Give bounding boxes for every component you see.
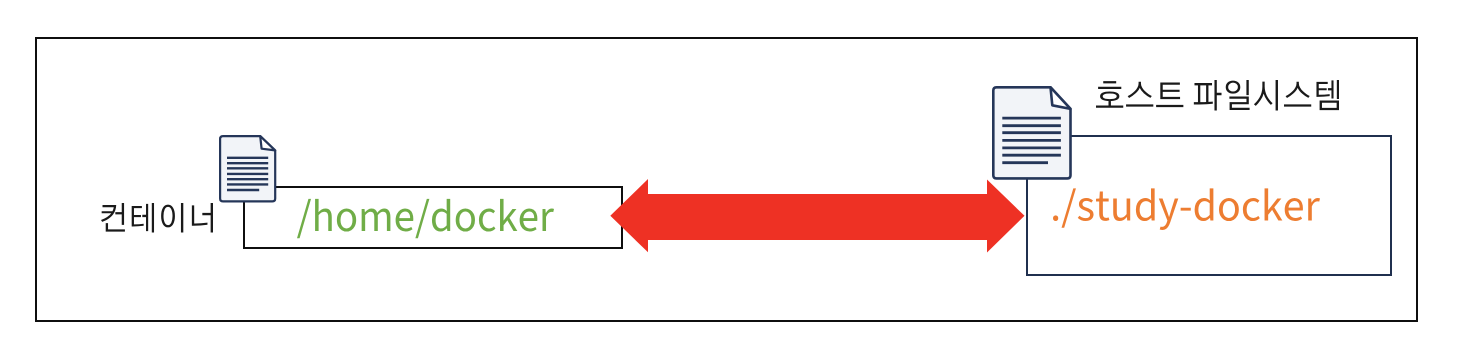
right host box — [1026, 135, 1392, 276]
label: 호스트 파일시스템 (host filesystem) — [1090, 74, 1346, 118]
label: 컨테이너 (container) — [95, 196, 220, 241]
orange path text ./study-docker — [1046, 180, 1330, 238]
red double arrow — [608, 177, 1028, 255]
green path text /home/docker — [290, 190, 565, 245]
right document icon — [992, 86, 1073, 181]
left container box — [243, 186, 623, 249]
left document icon — [219, 135, 277, 203]
outer frame — [35, 37, 1418, 322]
